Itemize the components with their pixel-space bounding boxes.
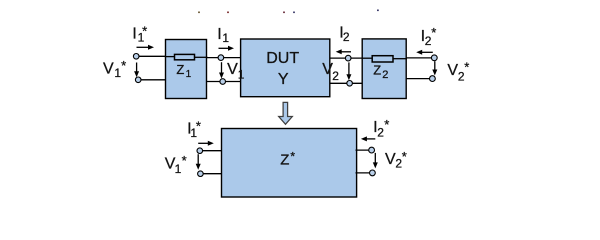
svg-text:1: 1	[238, 67, 245, 81]
svg-text:2: 2	[343, 30, 350, 44]
svg-text:Z: Z	[373, 63, 381, 78]
svg-text:*: *	[402, 149, 407, 164]
svg-text:2: 2	[377, 126, 384, 140]
svg-text:V: V	[385, 151, 396, 168]
svg-text:*: *	[384, 117, 389, 132]
svg-text:V: V	[103, 61, 114, 78]
svg-text:*: *	[431, 25, 436, 40]
svg-text:I: I	[132, 25, 136, 42]
svg-text:*: *	[290, 150, 295, 164]
svg-text:2: 2	[332, 69, 339, 83]
svg-text:I: I	[217, 26, 221, 43]
svg-text:1: 1	[222, 31, 229, 45]
svg-text:1: 1	[175, 162, 182, 176]
svg-text:Z: Z	[280, 151, 289, 168]
svg-text:*: *	[196, 119, 201, 134]
svg-text:*: *	[464, 59, 469, 74]
svg-text:V: V	[447, 62, 458, 79]
svg-text:*: *	[121, 58, 126, 73]
svg-text:DUT: DUT	[266, 50, 299, 67]
svg-text:V: V	[227, 61, 238, 78]
svg-text:Z: Z	[176, 62, 184, 77]
svg-text:*: *	[142, 23, 147, 38]
svg-text:*: *	[182, 153, 187, 168]
svg-text:Y: Y	[278, 71, 289, 88]
svg-text:1: 1	[186, 69, 192, 80]
svg-text:2: 2	[382, 69, 388, 81]
